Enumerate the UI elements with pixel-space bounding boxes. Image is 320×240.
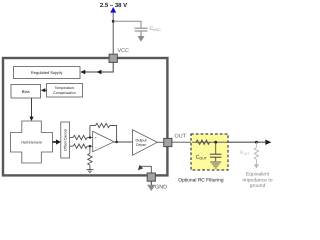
wire resistor to op-amp plus xyxy=(87,137,93,139)
signal arrow Hall to offset cancel xyxy=(53,141,58,143)
svg-text:GND: GND xyxy=(155,185,167,191)
feedback wire top left xyxy=(90,125,96,127)
GND ground arrow xyxy=(147,185,155,191)
supply arrow (blue) xyxy=(110,7,116,13)
svg-text:Output: Output xyxy=(135,138,146,142)
op-amp U1 xyxy=(93,131,114,152)
svg-text:Hall Element: Hall Element xyxy=(21,140,41,144)
wire Bias to Hall element xyxy=(31,98,33,118)
svg-text:Optional RC Filtering: Optional RC Filtering xyxy=(178,178,224,184)
rail arrowhead xyxy=(265,140,271,145)
wire supply to VCC pin xyxy=(112,12,114,54)
svg-text:Compensation: Compensation xyxy=(53,91,76,95)
OUT pin xyxy=(164,138,172,146)
svg-text:Offset Cancel: Offset Cancel xyxy=(64,129,68,151)
svg-text:ground: ground xyxy=(250,183,266,189)
junction load xyxy=(255,141,258,144)
arrowhead mid wire xyxy=(97,70,102,74)
filter ground symbol xyxy=(210,162,221,168)
svg-text:Regulated Supply: Regulated Supply xyxy=(31,70,63,75)
capacitor COUT xyxy=(215,142,217,154)
wire VCC pin to regulated supply xyxy=(81,62,113,72)
VCC pin xyxy=(109,54,117,62)
svg-text:Bias: Bias xyxy=(22,89,30,94)
wire to bypass capacitor xyxy=(113,21,141,28)
block Offset Cancel (rotated) xyxy=(61,122,70,158)
wire offset cancel to resistor bottom xyxy=(70,145,73,147)
svg-text:VCC: VCC xyxy=(118,48,129,54)
GND clamp wire xyxy=(141,166,152,173)
feedback wire right xyxy=(110,126,117,143)
junction ground resistor at minus input xyxy=(89,145,91,147)
IC boundary box xyxy=(3,58,167,175)
RINT ground arrow xyxy=(254,164,259,168)
block Bias xyxy=(11,85,41,99)
svg-text:Temperature: Temperature xyxy=(55,86,75,90)
svg-text:−: − xyxy=(95,145,97,149)
resistor input bottom xyxy=(73,144,87,148)
capacitor CVCC ground arrow xyxy=(138,36,145,42)
resistor RINT equivalent impedance xyxy=(255,142,257,147)
ground symbol xyxy=(86,170,93,173)
feedback resistor xyxy=(96,123,110,127)
wire GND pin down xyxy=(150,181,152,185)
block Regulated Supply xyxy=(14,67,81,79)
resistor to ground xyxy=(88,153,92,165)
arrowhead into regulated supply xyxy=(80,70,85,74)
rail inside filter redrawn xyxy=(192,141,267,143)
svg-text:Driver: Driver xyxy=(136,143,147,147)
wire op-amp output to driver xyxy=(114,141,133,143)
arrow Temperature Compensation to Bias xyxy=(44,89,46,91)
junction filter cap xyxy=(214,141,217,144)
output rail wire xyxy=(172,141,267,143)
junction feedback at plus input xyxy=(89,136,91,138)
wire resistor to op-amp minus xyxy=(87,145,93,147)
svg-text:+: + xyxy=(95,136,97,140)
wire resistor to ground symbol xyxy=(89,165,91,169)
wire offset cancel to resistor top xyxy=(70,137,73,139)
arrowhead into Hall element xyxy=(29,117,33,121)
optional RC filter box (yellow dashed) xyxy=(191,134,228,170)
filter resistor xyxy=(196,140,210,144)
wire to ground resistor xyxy=(89,146,91,153)
GND clamp arrowhead xyxy=(138,165,143,170)
Hall element (cross) xyxy=(11,121,53,163)
GND pin xyxy=(147,173,155,181)
resistor input top xyxy=(73,135,87,139)
block Temperature Compensation xyxy=(47,84,83,98)
svg-text:OUT: OUT xyxy=(175,134,187,140)
wire driver to OUT pin xyxy=(157,141,164,143)
junction output feedback xyxy=(115,141,117,143)
capacitor CVCC xyxy=(135,28,148,36)
feedback wire left riser xyxy=(89,126,91,138)
output driver U2 xyxy=(133,130,158,155)
junction supply node xyxy=(112,20,115,23)
